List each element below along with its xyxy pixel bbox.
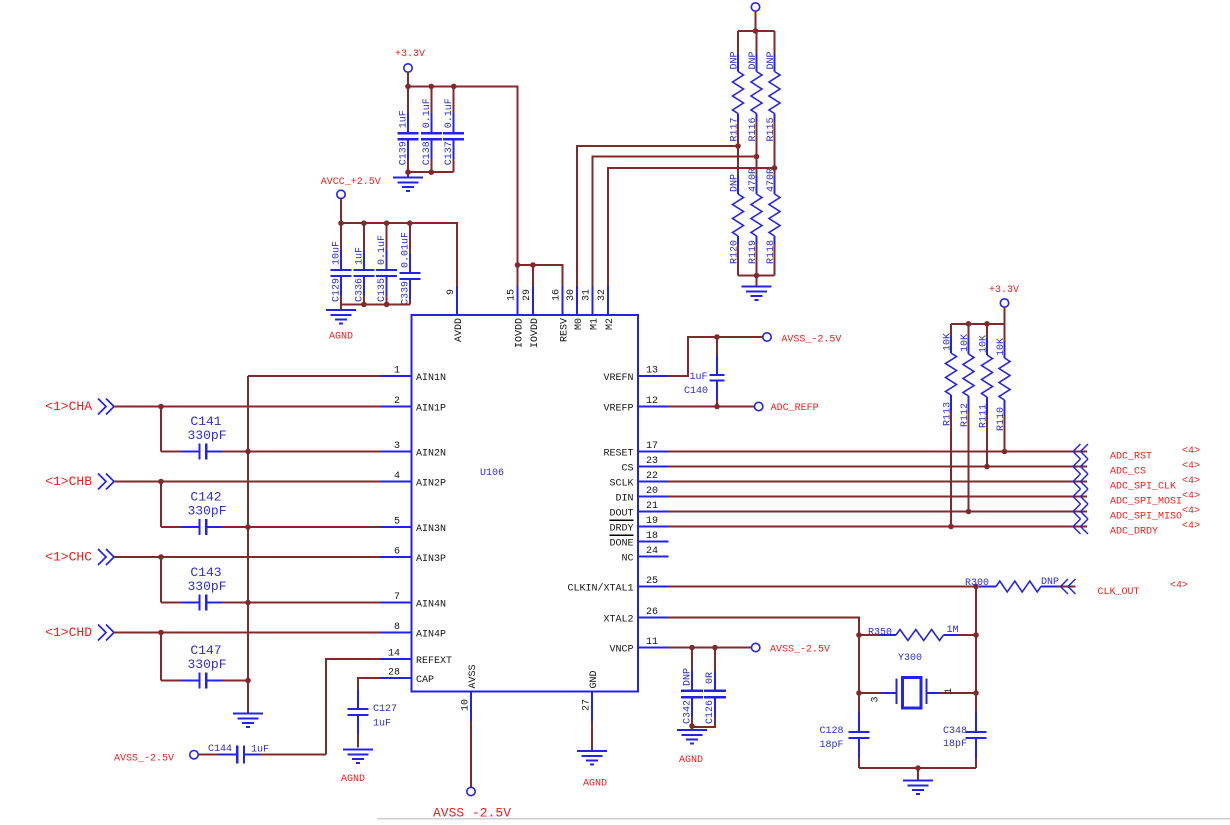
svg-text:C342: C342 [683, 700, 694, 724]
svg-text:ADC_DRDY: ADC_DRDY [1110, 527, 1158, 538]
svg-text:30: 30 [566, 289, 577, 301]
svg-text:32: 32 [597, 289, 608, 301]
svg-text:27: 27 [582, 699, 593, 711]
pin 14 REFEXT [381, 649, 453, 668]
svg-text:IOVDD: IOVDD [515, 318, 526, 348]
ground AGND [326, 310, 356, 343]
wire CHD [114, 630, 381, 681]
svg-text:DNP: DNP [1041, 577, 1059, 588]
wire R116 to R119 column [756, 122, 758, 177]
wire AIN2N row [245, 449, 380, 455]
capacitor C142 330pF [161, 490, 248, 536]
svg-text:C139: C139 [399, 141, 410, 165]
svg-text:<1>CHB: <1>CHB [45, 474, 92, 489]
svg-text:ADC_SPI_CLK: ADC_SPI_CLK [1110, 482, 1176, 493]
svg-text:23: 23 [646, 456, 658, 467]
resistor R350 1M [859, 625, 976, 641]
port <1>CHD [45, 625, 114, 641]
capacitor C147 330pF [161, 643, 248, 689]
pin 2 AIN1P [381, 396, 447, 415]
wire XTAL2 [669, 618, 862, 713]
pin 9 AVDD [446, 286, 465, 342]
svg-text:DONE: DONE [609, 539, 633, 550]
wire M0 to R117 [577, 143, 741, 286]
svg-text:AVDD: AVDD [454, 318, 465, 342]
wire pull-down rail [738, 273, 775, 287]
pin 4 AIN2P [381, 471, 447, 490]
svg-text:26: 26 [646, 607, 658, 618]
capacitor C141 330pF [161, 414, 248, 460]
pin 7 AIN4N [381, 592, 447, 611]
wire VNCP [669, 645, 752, 651]
svg-text:AIN1P: AIN1P [416, 404, 446, 415]
svg-text:<4>: <4> [1182, 521, 1200, 532]
pin 23 CS [621, 456, 668, 475]
svg-text:0R: 0R [705, 672, 716, 684]
svg-text:3: 3 [394, 441, 400, 452]
node ADC_SPI_MISO [1073, 504, 1200, 523]
ground AGND [577, 751, 607, 790]
wire pull-up rail [738, 28, 775, 34]
svg-text:AIN2N: AIN2N [416, 449, 446, 460]
svg-text:ADC_CS: ADC_CS [1110, 467, 1146, 478]
svg-text:VNCP: VNCP [609, 645, 633, 656]
svg-text:10K: 10K [960, 334, 971, 352]
pin 13 VREFN [603, 366, 668, 385]
wire crystal ground rail [859, 765, 976, 780]
wire VREFP to port [669, 404, 755, 410]
wire ADC_SPI_CLK [669, 481, 1088, 483]
wire ADC_SPI_MOSI [669, 496, 1088, 498]
capacitor C126 0R [692, 648, 726, 728]
svg-text:5: 5 [394, 517, 400, 528]
ground [742, 286, 772, 300]
svg-text:470R: 470R [748, 168, 759, 192]
wire CAP pin [358, 678, 381, 689]
svg-text:<4>: <4> [1182, 446, 1200, 457]
svg-text:C128: C128 [820, 726, 844, 737]
svg-text:7: 7 [394, 592, 400, 603]
wire CHC [114, 554, 381, 602]
pin 3 AIN2N [381, 441, 447, 460]
svg-text:C339: C339 [400, 281, 411, 305]
power port VCC top [751, 3, 759, 31]
power port AVSS_-2.5V [763, 333, 842, 346]
svg-text:17: 17 [646, 441, 658, 452]
ground AGND [341, 750, 373, 786]
svg-text:3: 3 [871, 697, 882, 703]
pin 6 AIN3P [381, 547, 447, 566]
capacitor C138 [421, 86, 442, 172]
svg-text:4: 4 [394, 471, 400, 482]
svg-text:25: 25 [646, 576, 658, 587]
svg-text:R300: R300 [965, 578, 989, 589]
node ADC_RST [1073, 444, 1200, 463]
svg-text:CLKIN/XTAL1: CLKIN/XTAL1 [567, 583, 633, 595]
svg-text:SCLK: SCLK [609, 479, 633, 490]
wire +3.3V rail [405, 72, 517, 265]
svg-text:20: 20 [646, 486, 658, 497]
wire ADC_SPI_MISO [669, 511, 1088, 513]
power port AVSS_-2.5V [752, 643, 831, 655]
svg-text:31: 31 [582, 289, 593, 301]
port <1>CHA [45, 399, 114, 415]
svg-text:AIN3N: AIN3N [416, 524, 446, 535]
pin 21 DOUT [609, 501, 668, 520]
svg-text:AGND: AGND [329, 332, 353, 343]
svg-text:CLK_OUT: CLK_OUT [1098, 587, 1140, 598]
capacitor C137 [443, 86, 464, 172]
node ADC_CS [1073, 459, 1200, 478]
svg-text:GND: GND [589, 670, 600, 688]
svg-text:RESV: RESV [560, 318, 571, 342]
pin 11 VNCP [609, 637, 668, 656]
port <1>CHB [45, 474, 114, 490]
wire REFEXT [326, 659, 381, 755]
ground [233, 714, 263, 728]
svg-text:AVCC_+2.5V: AVCC_+2.5V [321, 177, 381, 188]
wire CHA [114, 404, 381, 452]
svg-text:C137: C137 [444, 141, 455, 165]
svg-text:ADC_RST: ADC_RST [1110, 452, 1152, 463]
svg-text:AGND: AGND [341, 774, 365, 785]
svg-text:9: 9 [446, 289, 457, 295]
svg-text:2: 2 [394, 396, 400, 407]
svg-text:DNP: DNP [730, 51, 741, 69]
svg-text:REFEXT: REFEXT [416, 656, 452, 667]
wire ADC_CS [669, 466, 1088, 468]
svg-text:330pF: 330pF [187, 504, 226, 519]
wire ADC_RST [669, 451, 1088, 453]
svg-text:C140: C140 [684, 386, 708, 397]
pin 31 M1 [582, 286, 601, 330]
svg-text:C141: C141 [190, 414, 221, 429]
op-amp U106 ADC body [412, 315, 639, 692]
port <1>CHC [45, 549, 114, 565]
resistor R115 [766, 31, 780, 142]
svg-text:AIN2P: AIN2P [416, 479, 446, 490]
svg-text:C336: C336 [354, 278, 365, 302]
ground [393, 178, 423, 192]
capacitor C348 18pF [943, 712, 987, 768]
svg-text:8: 8 [394, 622, 400, 633]
svg-text:11: 11 [646, 637, 658, 648]
node ADC_SPI_MOSI [1073, 489, 1200, 508]
svg-text:AIN4N: AIN4N [416, 600, 446, 611]
svg-text:1uF: 1uF [373, 719, 391, 730]
node ADC_SPI_CLK [1073, 474, 1200, 493]
svg-text:DNP: DNP [683, 668, 694, 686]
svg-text:16: 16 [552, 289, 563, 301]
svg-text:U106: U106 [480, 468, 504, 479]
svg-text:C126: C126 [705, 700, 716, 724]
node CLK_OUT [1061, 579, 1189, 598]
wire input ground bus [245, 376, 251, 714]
svg-text:330pF: 330pF [187, 579, 226, 594]
power port ADC_REFP [755, 402, 819, 414]
ground [903, 781, 933, 795]
svg-text:VREFP: VREFP [603, 404, 633, 415]
svg-text:+3.3V: +3.3V [989, 285, 1019, 296]
svg-text:M2: M2 [605, 318, 616, 330]
capacitor C144 1uF [199, 744, 327, 764]
svg-text:21: 21 [646, 501, 658, 512]
svg-text:1: 1 [944, 688, 955, 694]
svg-text:6: 6 [394, 547, 400, 558]
svg-text:330pF: 330pF [187, 657, 226, 672]
wire pullup rail [951, 307, 1005, 326]
svg-text:22: 22 [646, 471, 658, 482]
capacitor C336 [353, 223, 374, 304]
svg-text:C348: C348 [943, 726, 967, 737]
svg-text:AGND: AGND [679, 755, 703, 766]
svg-text:<4>: <4> [1170, 581, 1188, 592]
svg-text:DNP: DNP [748, 51, 759, 69]
svg-text:DNP: DNP [766, 51, 777, 69]
svg-text:1uF: 1uF [399, 110, 410, 128]
svg-text:C144: C144 [208, 744, 232, 755]
svg-text:28: 28 [388, 668, 400, 679]
svg-text:470R: 470R [766, 168, 777, 192]
capacitor C139 [398, 86, 419, 172]
svg-text:1: 1 [394, 366, 400, 377]
power port +3.3V [989, 285, 1019, 307]
svg-text:Y300: Y300 [898, 653, 922, 664]
svg-text:24: 24 [646, 546, 658, 557]
resistor R119 [748, 168, 762, 276]
ground AGND [677, 730, 707, 766]
svg-text:1uF: 1uF [689, 372, 707, 383]
svg-text:C127: C127 [373, 704, 397, 715]
wire R117 to R120 column [737, 122, 739, 177]
pin 28 CAP [381, 668, 435, 687]
pin 22 SCLK [609, 471, 668, 490]
pin 1 AIN1N [381, 366, 447, 385]
pin 15 IOVDD [507, 286, 526, 348]
svg-text:0.01uF: 0.01uF [400, 232, 411, 268]
svg-text:0.1uF: 0.1uF [377, 235, 388, 265]
svg-text:AVSS -2.5V: AVSS -2.5V [433, 806, 511, 821]
svg-text:10K: 10K [979, 335, 990, 353]
resistor R117 [730, 31, 744, 142]
pin 5 AIN3N [381, 517, 447, 536]
capacitor C143 330pF [161, 565, 248, 611]
capacitor C128 18pF [820, 712, 870, 768]
svg-text:18pF: 18pF [820, 740, 844, 751]
svg-text:<4>: <4> [1182, 476, 1200, 487]
svg-text:M1: M1 [590, 318, 601, 330]
svg-text:DIN: DIN [615, 494, 633, 505]
wire AIN1N to bus [248, 375, 381, 377]
svg-text:AVSS_-2.5V: AVSS_-2.5V [770, 645, 830, 656]
wire AVCC rail to pin 9 [338, 199, 457, 286]
wire VREFN to AVSS port [669, 334, 763, 376]
svg-text:14: 14 [388, 649, 400, 660]
svg-text:C143: C143 [190, 565, 221, 580]
svg-text:RESET: RESET [603, 449, 633, 460]
svg-text:CAP: CAP [416, 675, 434, 686]
svg-text:<4>: <4> [1182, 506, 1200, 517]
svg-text:ADC_REFP: ADC_REFP [771, 403, 819, 414]
svg-text:AIN3P: AIN3P [416, 554, 446, 565]
pin 16 RESV [552, 286, 571, 342]
svg-text:10uF: 10uF [332, 241, 343, 265]
svg-text:AIN1N: AIN1N [416, 373, 446, 384]
svg-text:IOVDD: IOVDD [530, 318, 541, 348]
wire M2 to R115 [608, 165, 777, 286]
pin 18 DONE [609, 531, 668, 550]
capacitor C342 DNP [681, 648, 703, 727]
svg-text:<1>CHA: <1>CHA [45, 399, 92, 414]
pin 24 NC [621, 546, 668, 565]
wire XTAL1 column [973, 587, 979, 713]
svg-text:AVSS_-2.5V: AVSS_-2.5V [114, 754, 174, 765]
svg-text:AVSS_-2.5V: AVSS_-2.5V [781, 335, 841, 346]
svg-text:M0: M0 [574, 318, 585, 330]
pin 26 XTAL2 [603, 607, 668, 626]
svg-text:+3.3V: +3.3V [395, 49, 425, 60]
svg-text:<4>: <4> [1182, 461, 1200, 472]
svg-text:R350: R350 [868, 628, 892, 639]
capacitor C135 [376, 223, 397, 304]
wire AVSS to port [470, 722, 472, 788]
svg-text:29: 29 [522, 289, 533, 301]
pin 12 VREFP [603, 396, 668, 415]
pin 8 AIN4P [381, 622, 447, 641]
pin 10 AVSS [461, 664, 480, 721]
svg-text:AIN4P: AIN4P [416, 630, 446, 641]
pin 17 RESET [603, 441, 668, 460]
wire AIN3N row [245, 524, 380, 530]
power port +3.3V [395, 49, 425, 72]
wire ADC_DRDY [669, 526, 1088, 528]
svg-text:C129: C129 [332, 278, 343, 302]
svg-text:ADC_SPI_MISO: ADC_SPI_MISO [1110, 512, 1182, 523]
svg-text:12: 12 [646, 396, 658, 407]
svg-text:C147: C147 [190, 643, 221, 658]
node C342 C126 junction [689, 723, 695, 730]
pin 25 CLKIN/XTAL1 [567, 576, 668, 595]
power port AVSS -2.5V [433, 787, 511, 820]
pin 30 M0 [566, 286, 585, 330]
svg-text:1M: 1M [947, 625, 959, 636]
pin 29 IOVDD [522, 286, 541, 348]
svg-text:1uF: 1uF [354, 247, 365, 265]
svg-text:10K: 10K [996, 338, 1007, 356]
resistor R116 [748, 31, 762, 142]
svg-text:<1>CHD: <1>CHD [45, 625, 92, 640]
svg-text:0.1uF: 0.1uF [444, 98, 455, 128]
wire IOVDD RESV net [515, 262, 563, 286]
svg-text:<4>: <4> [1182, 491, 1200, 502]
svg-text:10: 10 [461, 699, 472, 711]
resistor R118 [766, 168, 780, 276]
capacitor C127 1uF [348, 688, 398, 748]
sheet border [377, 818, 1230, 820]
power port AVCC_+2.5V [321, 177, 381, 199]
resistor R300 DNP [965, 577, 1076, 592]
pin 32 M2 [597, 286, 616, 330]
svg-text:330pF: 330pF [187, 428, 226, 443]
pin 27 GND [582, 670, 601, 721]
svg-text:10K: 10K [943, 333, 954, 351]
wire CHB [114, 479, 381, 527]
pin 19 DRDY [609, 516, 668, 535]
capacitor C129 [331, 223, 352, 304]
svg-text:19: 19 [646, 516, 658, 527]
svg-text:DRDY: DRDY [609, 524, 633, 535]
svg-text:AVSS: AVSS [468, 664, 479, 688]
pin 20 DIN [615, 486, 668, 505]
wire CLKIN/XTAL1 [669, 584, 979, 590]
svg-text:0.1uF: 0.1uF [422, 98, 433, 128]
svg-text:VREFN: VREFN [603, 373, 633, 384]
svg-text:1uF: 1uF [251, 745, 269, 756]
svg-text:<1>CHC: <1>CHC [45, 550, 92, 565]
crystal Y300 [859, 653, 976, 708]
resistor R110 10K [996, 324, 1010, 455]
wire R115 to R118 column [774, 122, 776, 177]
svg-text:DOUT: DOUT [609, 509, 633, 520]
svg-text:DNP: DNP [730, 174, 741, 192]
svg-text:ADC_SPI_MOSI: ADC_SPI_MOSI [1110, 497, 1182, 508]
capacitor C140 1uF [684, 337, 725, 407]
svg-text:15: 15 [507, 289, 518, 301]
svg-text:18pF: 18pF [943, 739, 967, 750]
wire cap bottom rail [405, 169, 454, 177]
svg-text:C138: C138 [422, 141, 433, 165]
wire AIN4N row [245, 600, 380, 606]
svg-text:C135: C135 [377, 278, 388, 302]
node ADC_DRDY [1073, 519, 1200, 538]
svg-text:XTAL2: XTAL2 [603, 615, 633, 626]
resistor R112 10K [960, 324, 974, 515]
resistor R111 10K [979, 324, 993, 470]
svg-text:13: 13 [646, 366, 658, 377]
resistor R120 [730, 174, 744, 276]
svg-text:CS: CS [621, 464, 633, 475]
power port AVSS_-2.5V [114, 751, 198, 765]
wire AVCC cap bottom rail [341, 302, 410, 310]
resistor R113 10K [943, 324, 957, 530]
capacitor C339 [399, 223, 420, 305]
svg-text:AGND: AGND [583, 779, 607, 790]
svg-text:18: 18 [646, 531, 658, 542]
wire M1 to R116 [593, 154, 760, 286]
wire GND pin [591, 722, 593, 751]
svg-text:NC: NC [621, 554, 633, 565]
svg-text:C142: C142 [190, 490, 221, 505]
